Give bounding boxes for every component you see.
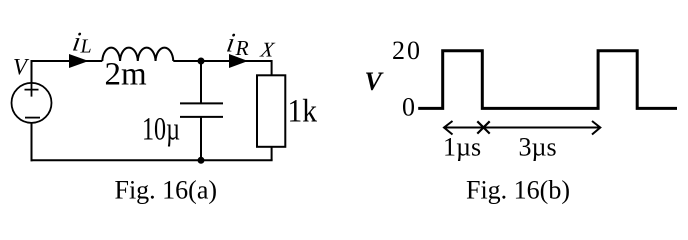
node bottom junction dot [198, 157, 205, 164]
svg-text:X: X [258, 38, 276, 62]
wire top horizontal right segment [173, 60, 271, 62]
arrowhead right [592, 121, 600, 135]
svg-text:3µs: 3µs [519, 132, 557, 161]
resistor R1 box [257, 75, 285, 147]
svg-text:10µ: 10µ [142, 112, 180, 148]
node top junction dot [198, 58, 205, 65]
wire top horizontal left segment [31, 60, 103, 62]
svg-text:Fig. 16(b): Fig. 16(b) [466, 176, 570, 205]
svg-text:L: L [80, 36, 92, 58]
svg-text:V: V [365, 67, 385, 96]
X tick mark [477, 121, 489, 133]
wire top-left vertical [31, 61, 33, 83]
inductor L1 2m [102, 48, 173, 61]
waveform pulse trace [418, 51, 677, 109]
wire capacitor bottom lead [200, 117, 202, 160]
wire capacitor top lead [200, 61, 202, 103]
wire right vertical upper [271, 60, 273, 75]
svg-text:V: V [13, 55, 30, 80]
voltage source minus sign [25, 117, 40, 119]
capacitor C1 plates [180, 103, 223, 117]
svg-text:Fig. 16(a): Fig. 16(a) [115, 176, 218, 205]
svg-text:2m: 2m [105, 56, 148, 92]
wire right vertical lower [271, 147, 273, 161]
svg-text:20: 20 [392, 36, 422, 65]
current arrow iL [69, 54, 89, 68]
voltage source plus sign [25, 83, 39, 97]
arrowhead left [444, 121, 453, 135]
svg-text:0: 0 [402, 93, 415, 122]
wire bottom horizontal [31, 159, 273, 161]
wire bottom-left vertical [31, 123, 33, 161]
dimension arrow line [444, 127, 600, 129]
svg-text:1µs: 1µs [443, 132, 481, 161]
current arrow iR [229, 54, 248, 68]
voltage source V1 circle [12, 83, 52, 123]
svg-text:R: R [235, 36, 249, 60]
svg-text:1k: 1k [288, 94, 318, 130]
